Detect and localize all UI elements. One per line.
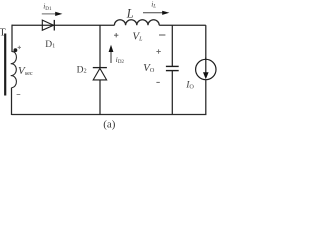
svg-text:iD2: iD2 <box>116 55 125 65</box>
svg-text:IO: IO <box>185 81 194 91</box>
current source IO circle <box>196 59 216 79</box>
capacitor plates <box>166 66 179 70</box>
inductor L <box>114 20 159 25</box>
svg-text:(a): (a) <box>103 118 116 130</box>
diode D2 freewheeling <box>93 25 107 114</box>
wire transformer bottom lead <box>11 88 13 115</box>
svg-text:D1: D1 <box>45 40 55 50</box>
transformer core T <box>4 34 6 96</box>
diode D1 <box>42 20 54 31</box>
svg-text:VL: VL <box>132 31 143 43</box>
minus sign VO <box>156 81 159 83</box>
plus sign VL <box>114 33 118 37</box>
wire top horizontal <box>12 24 206 26</box>
svg-text:Vsec: Vsec <box>18 65 33 77</box>
arrow iL <box>143 12 164 14</box>
svg-text:VO: VO <box>143 62 155 74</box>
transformer secondary winding <box>11 52 17 88</box>
wire bottom horizontal <box>12 114 207 116</box>
capacitor branch top lead <box>171 25 173 66</box>
svg-text:D2: D2 <box>77 65 87 75</box>
current source arrow <box>205 58 207 74</box>
arrow iD1 <box>42 13 57 15</box>
polarity dot <box>14 48 18 52</box>
minus sign VL <box>159 34 165 36</box>
minus sign Vsec <box>17 94 21 96</box>
plus sign Vsec <box>18 46 21 49</box>
svg-text:L: L <box>126 6 134 20</box>
svg-text:iD1: iD1 <box>43 2 52 12</box>
svg-text:T: T <box>0 27 6 38</box>
wire transformer top lead <box>11 25 13 52</box>
wire right vertical to current source <box>205 25 207 59</box>
arrow iD2 <box>110 52 112 63</box>
svg-text:iL: iL <box>151 0 156 9</box>
capacitor bottom lead <box>171 71 173 115</box>
plus sign VO <box>156 49 160 53</box>
